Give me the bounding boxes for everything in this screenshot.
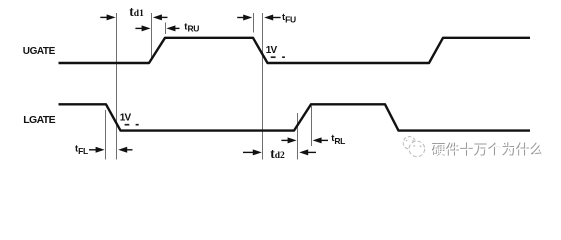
svg-text:tFU: tFU	[282, 12, 296, 24]
svg-text:tRL: tRL	[331, 133, 345, 146]
svg-text:硬件十万个为什么: 硬件十万个为什么	[433, 143, 545, 159]
svg-text:UGATE: UGATE	[23, 46, 56, 57]
svg-text:LGATE: LGATE	[23, 114, 55, 126]
svg-text:tRU: tRU	[184, 21, 199, 33]
svg-text:td1: td1	[129, 4, 144, 19]
svg-text:td2: td2	[270, 146, 285, 161]
svg-text:tFL: tFL	[75, 144, 88, 157]
svg-text:1V: 1V	[266, 45, 278, 56]
svg-text:1V: 1V	[120, 112, 132, 123]
